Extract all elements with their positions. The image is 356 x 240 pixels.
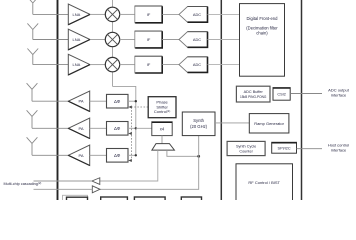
ADC1	[179, 7, 208, 23]
LO in buffer	[92, 186, 100, 193]
svg-text:ΔΦ: ΔΦ	[114, 99, 121, 104]
phase shifter PS1	[107, 94, 129, 108]
svg-text:Multi-chip cascading(2): Multi-chip cascading(2)	[4, 181, 42, 186]
wire splitter to LO node	[167, 150, 199, 156]
svg-text:LNA: LNA	[73, 62, 81, 67]
phase shifter control block	[148, 97, 176, 118]
svg-text:LNA: LNA	[73, 12, 81, 17]
ADC2	[179, 32, 208, 48]
bottom block D (cropped)	[181, 197, 201, 203]
chip internal divider	[220, 0, 222, 200]
bottom block A outer (cropped)	[63, 195, 88, 203]
wire synth to LO node and LO in buffer	[100, 136, 199, 190]
wire antenna RX2 to LNA2	[33, 39, 69, 41]
svg-text:ADC: ADC	[193, 12, 201, 17]
wire ADC1 to digital front-end	[208, 13, 240, 15]
bottom block B (cropped)	[101, 197, 128, 203]
LO out buffer	[92, 178, 100, 185]
ADC3	[179, 57, 208, 73]
junction node LO/PS2	[135, 127, 137, 129]
svg-text:15kB PING-PONG: 15kB PING-PONG	[240, 95, 267, 99]
wire PA2 to antenna TX2	[32, 127, 68, 129]
junction node LO/PS1	[135, 100, 137, 102]
IF filter IF3	[135, 56, 162, 73]
svg-text:interface: interface	[331, 148, 347, 153]
wire phase shifter PS2 to PA2	[90, 127, 107, 129]
wire mixer M2 to IF2	[120, 39, 135, 41]
wire phase shifter PS3 to PA3	[90, 154, 107, 156]
wire synth to ramp generator	[215, 122, 249, 124]
wire antenna RX1 to LNA1	[33, 13, 69, 15]
svg-text:interface: interface	[331, 93, 347, 98]
wire SPI I2C to host control interface	[297, 148, 323, 150]
junction node LO/PS3	[135, 154, 137, 156]
wire LO in from edge	[34, 188, 93, 190]
svg-text:ADC: ADC	[193, 37, 201, 42]
label ADC output interface	[328, 88, 350, 98]
svg-text:Ramp Generator: Ramp Generator	[254, 121, 284, 126]
antenna TX2	[27, 110, 38, 128]
antenna RX2	[27, 23, 38, 39]
wire x4 to LO splitter	[161, 136, 163, 144]
synth cycle counter block	[227, 141, 265, 155]
arrowhead into PS3	[128, 159, 132, 162]
IF filter IF1	[135, 6, 162, 23]
x4 frequency multiplier	[152, 122, 172, 136]
RF control BIST block	[236, 164, 293, 206]
svg-text:SPI/I2C: SPI/I2C	[278, 147, 291, 151]
LO line to RX mixers	[113, 0, 136, 155]
phase shifter control dashed bus	[130, 107, 148, 161]
power amplifier PA3	[68, 145, 89, 165]
svg-text:chain): chain)	[256, 31, 268, 36]
phase shifter PS2	[107, 122, 129, 136]
wire IF3 to ADC3	[162, 64, 179, 66]
svg-text:PA: PA	[78, 99, 83, 104]
wire antenna RX3 to LNA3	[33, 64, 69, 66]
wire mixer M1 to IF1	[120, 13, 135, 15]
wire CSI2 to ADC output interface	[290, 93, 322, 95]
svg-text:CSI2: CSI2	[277, 93, 285, 97]
svg-text:PA: PA	[78, 153, 83, 158]
wire LO to PS1	[128, 100, 136, 102]
phase shifter PS3	[107, 149, 129, 163]
svg-text:IF: IF	[147, 12, 151, 17]
svg-text:Synth Cycle: Synth Cycle	[236, 144, 256, 148]
LO power splitter	[152, 144, 175, 151]
mixer M2	[105, 32, 119, 46]
svg-text:ΔΦ: ΔΦ	[114, 153, 121, 158]
wire ADC2 to digital front-end	[208, 39, 240, 41]
antenna TX1	[27, 83, 38, 101]
IF filter IF2	[135, 31, 162, 48]
wire PA3 to antenna TX3	[32, 154, 68, 156]
wire IF2 to ADC2	[162, 39, 179, 41]
svg-text:ΔΦ: ΔΦ	[114, 126, 121, 131]
label host control interface	[328, 143, 349, 153]
digital front-end block	[240, 4, 285, 77]
wire LNA3 to mixer M3	[90, 64, 105, 66]
svg-text:Counter: Counter	[239, 149, 253, 153]
wire LNA1 to mixer M1	[90, 13, 105, 15]
wire LO out to edge	[34, 180, 92, 182]
junction node LO cascade	[197, 155, 200, 158]
antenna RX1	[27, 0, 38, 14]
ADC buffer block	[236, 86, 270, 102]
bottom block A (cropped)	[67, 197, 88, 203]
wire LO to PS2	[128, 127, 136, 129]
arrowhead into PS1	[128, 106, 132, 109]
wire IF1 to ADC1	[162, 13, 179, 15]
svg-text:ADC: ADC	[193, 62, 201, 67]
svg-text:Synth: Synth	[193, 118, 204, 123]
chip left edge	[57, 0, 59, 200]
wire LO to PS3	[128, 154, 136, 156]
power amplifier PA2	[68, 118, 89, 138]
wire splitter to LO out buffer	[100, 150, 158, 181]
svg-text:LNA: LNA	[73, 37, 81, 42]
svg-text:(20 GHz): (20 GHz)	[190, 124, 208, 129]
svg-text:RF Control / BIST: RF Control / BIST	[248, 180, 280, 185]
arrowhead into PS2	[128, 132, 132, 135]
bottom block C (cropped)	[134, 197, 165, 203]
synthesizer block	[182, 112, 215, 136]
LNA1	[68, 4, 90, 25]
svg-text:x4: x4	[160, 127, 165, 132]
mixer M3	[105, 57, 119, 71]
LNA2	[68, 29, 90, 50]
svg-text:IF: IF	[147, 37, 151, 42]
svg-text:PA: PA	[78, 126, 83, 131]
wire LNA2 to mixer M2	[90, 39, 105, 41]
svg-text:Digital Front-end: Digital Front-end	[247, 16, 279, 21]
SPI I2C block	[272, 142, 297, 153]
wire phase shifter PS1 to PA1	[90, 100, 107, 102]
LNA3	[68, 54, 90, 75]
mixer M1	[105, 7, 119, 21]
svg-text:IF: IF	[147, 62, 151, 67]
wire PA1 to antenna TX1	[32, 100, 68, 102]
antenna RX3	[27, 49, 38, 65]
power amplifier PA1	[68, 91, 89, 111]
antenna TX3	[27, 137, 38, 155]
wire ADC3 to digital front-end	[208, 64, 240, 66]
svg-text:ADC Buffer: ADC Buffer	[244, 90, 264, 94]
chip right edge	[301, 0, 303, 200]
wire LO to x4 multiplier	[136, 127, 152, 129]
ramp generator block	[249, 114, 289, 133]
wire mixer M3 to IF3	[120, 64, 135, 66]
CSI2 block	[273, 88, 290, 101]
